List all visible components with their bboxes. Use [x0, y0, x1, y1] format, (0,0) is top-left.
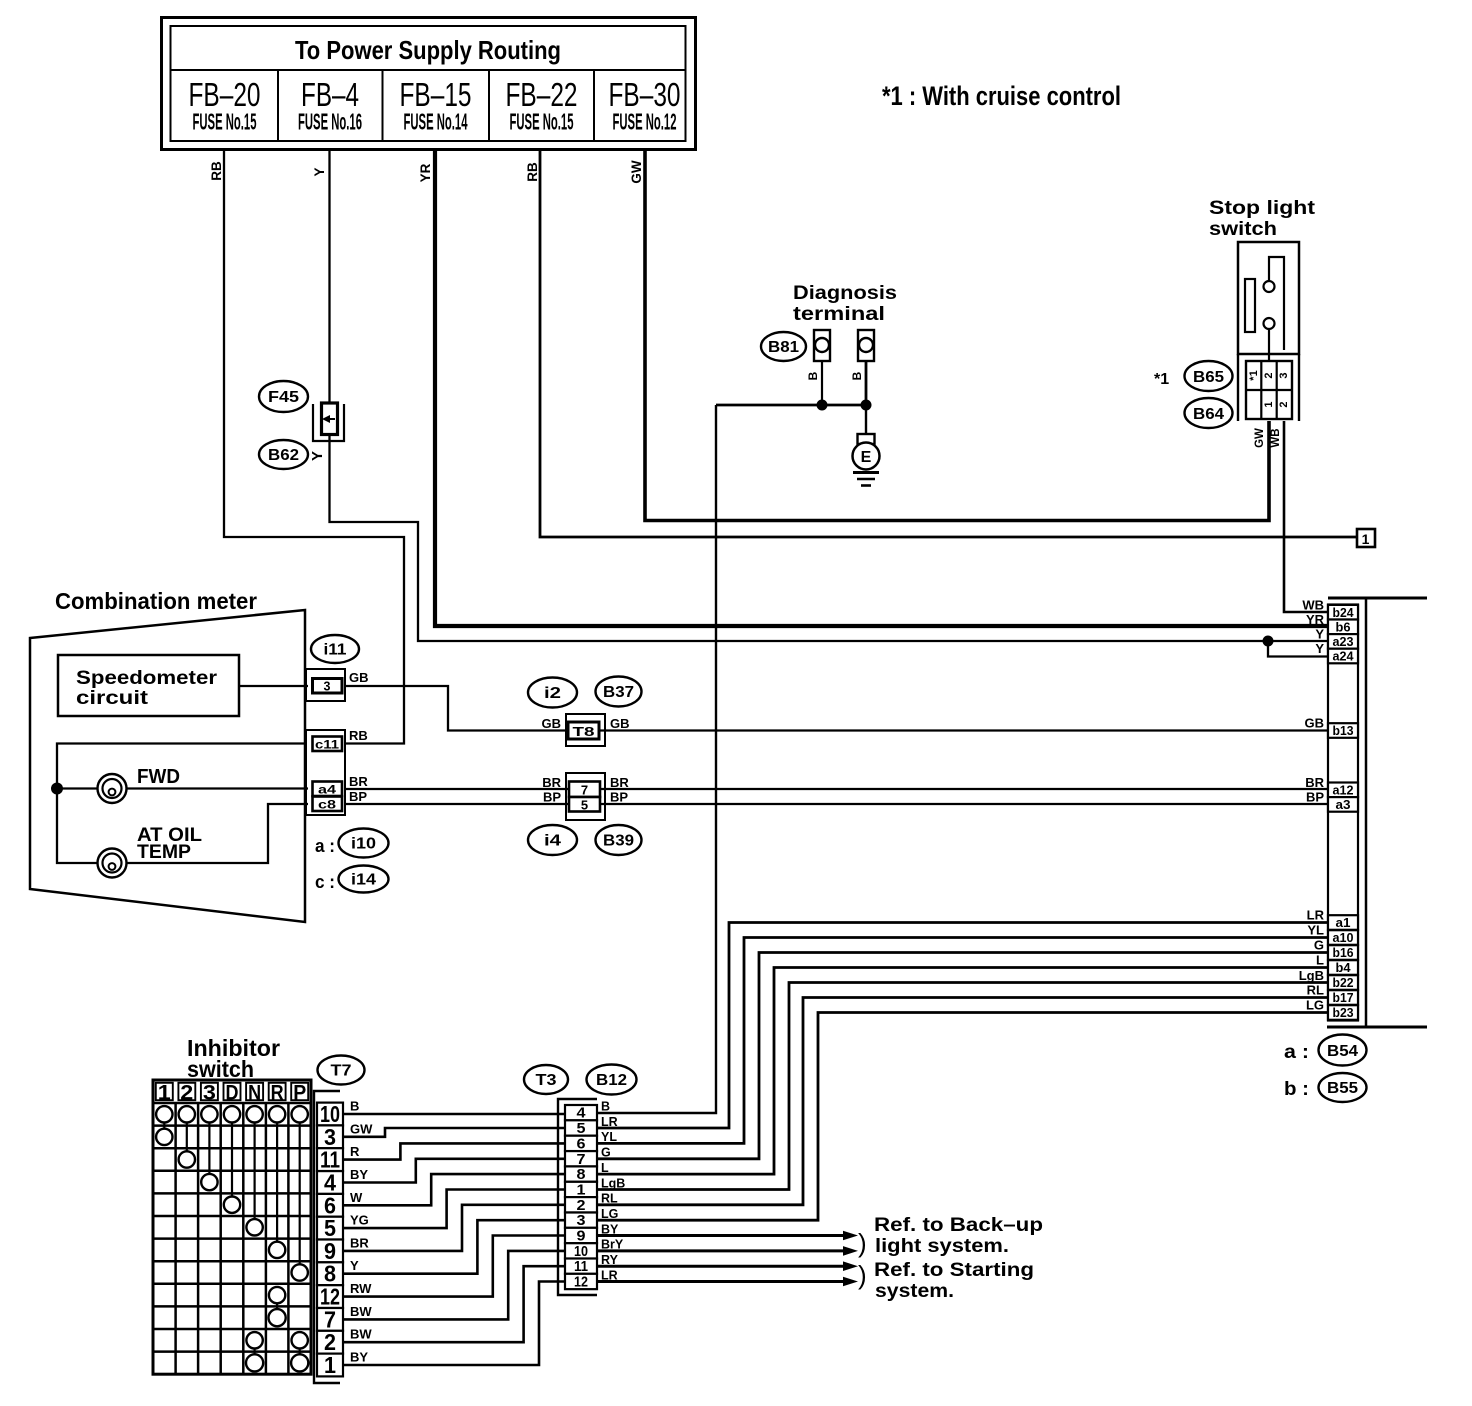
svg-text:2: 2: [180, 1081, 193, 1105]
svg-text:5: 5: [581, 798, 588, 813]
svg-text:B37: B37: [603, 684, 634, 701]
svg-text:BW: BW: [350, 1327, 372, 1342]
oval T7: [318, 1056, 365, 1085]
wire BR from T7 pin 9 to B12: [343, 1205, 565, 1251]
svg-text:BP: BP: [610, 790, 628, 805]
svg-text:b4: b4: [1336, 960, 1352, 975]
svg-text:FB–20: FB–20: [189, 76, 261, 113]
wire Y from FB-4 through F45/B62 to pins a23/a24: [330, 149, 1329, 641]
connector F45/B62 on Y wire: [313, 403, 344, 441]
svg-text:WB: WB: [1270, 428, 1282, 447]
label Inhibitor switch: [187, 1035, 280, 1082]
svg-text:BY: BY: [350, 1167, 368, 1182]
svg-text:RW: RW: [350, 1281, 372, 1296]
pin b23: [1328, 1005, 1358, 1020]
diagnosis terminal contact 2: [858, 330, 874, 361]
T7 pin 8: [317, 1261, 343, 1287]
fuse FB-15 FUSE No.14: [400, 76, 472, 135]
oval T3: [524, 1065, 568, 1094]
T7 pin 10: [317, 1101, 343, 1127]
label Stop light switch: [1209, 198, 1316, 240]
AT OIL TEMP indicator lamp: [98, 849, 127, 878]
meter internal wiring to lamps: [57, 744, 308, 864]
wire B from diagnosis node to connector B12 pin 4: [598, 405, 716, 1113]
svg-text:FB–15: FB–15: [400, 76, 472, 113]
contact circles N rows 11-12: [246, 1332, 263, 1371]
contact circles R rows 9-10: [269, 1287, 286, 1326]
wire WB from stop light pin 2 to pin b24: [1284, 421, 1328, 612]
svg-text:E: E: [861, 449, 872, 466]
wire diagnosis contact 2 to node: [865, 361, 868, 405]
wire YG from T7 pin 5 to B12: [343, 1190, 565, 1229]
pin a3: [1328, 797, 1358, 812]
svg-text:BR: BR: [350, 1235, 369, 1250]
svg-text:RL: RL: [1307, 983, 1324, 998]
pin b16: [1328, 945, 1358, 960]
svg-text:To Power Supply Routing: To Power Supply Routing: [295, 35, 561, 65]
T7 pin 7: [317, 1306, 343, 1332]
B12 pin 8: [565, 1166, 597, 1183]
wire RY from B12 pin 11 arrow: [597, 1261, 858, 1271]
svg-text:a :: a :: [315, 836, 335, 856]
svg-text:R: R: [271, 1081, 284, 1105]
svg-text:LgB: LgB: [1299, 968, 1324, 983]
contact circle column 1: [156, 1129, 172, 1145]
svg-text:T3: T3: [536, 1072, 557, 1089]
oval B12: [587, 1065, 637, 1095]
svg-text:FB–30: FB–30: [609, 76, 681, 113]
svg-text:circuit: circuit: [76, 688, 149, 709]
pin a24: [1328, 649, 1358, 664]
contact line column P: [299, 1123, 301, 1265]
wire B from T7 pin 10 to B12: [343, 1113, 565, 1116]
fuse FB-20 FUSE No.15: [189, 76, 261, 135]
svg-text:Y: Y: [312, 167, 327, 176]
svg-text:Y: Y: [1315, 641, 1324, 656]
svg-text:*1: *1: [1248, 370, 1260, 380]
contact line column 2: [186, 1123, 188, 1152]
B12 pin 7: [565, 1151, 597, 1168]
stop light switch body: [1238, 242, 1299, 361]
pin b24: [1328, 605, 1358, 620]
svg-text:2: 2: [1263, 372, 1275, 378]
T7 pin 11: [317, 1147, 343, 1173]
wire GB from pin 3 to pin b13: [344, 686, 1328, 731]
pin b17: [1328, 990, 1358, 1005]
svg-text:i2: i2: [544, 685, 561, 702]
wire speedometer to pin 3: [239, 685, 308, 687]
svg-text:b22: b22: [1333, 975, 1354, 990]
svg-text:YR: YR: [1306, 612, 1325, 627]
svg-text:b6: b6: [1336, 620, 1351, 635]
svg-text:2: 2: [577, 1198, 586, 1214]
svg-text:8: 8: [577, 1167, 586, 1183]
wire BY from T7 pin 1 to B12: [343, 1282, 565, 1366]
pin a23: [1328, 634, 1358, 649]
contact circles P rows 11-12: [291, 1332, 308, 1371]
B12 pin 2: [565, 1197, 597, 1214]
T7 pin 4: [317, 1170, 343, 1196]
wire YL from B12 pin 6 to strip: [597, 938, 1328, 1144]
svg-text:1: 1: [1263, 401, 1275, 407]
svg-text:FB–22: FB–22: [506, 76, 578, 113]
label Ref to Back-up light system: [874, 1215, 1043, 1257]
svg-text:YR: YR: [418, 163, 433, 182]
T7 pin 9: [317, 1238, 343, 1264]
pin b13: [1328, 723, 1358, 738]
svg-text:FUSE No.12: FUSE No.12: [613, 109, 677, 135]
connector T7 bracket: [314, 1091, 340, 1383]
oval B37: [596, 677, 642, 707]
svg-text:B62: B62: [268, 447, 299, 464]
svg-text:RB: RB: [525, 162, 540, 182]
svg-text:GW: GW: [629, 160, 644, 184]
svg-text:*1: *1: [1154, 371, 1169, 388]
inhibitor switch grid: [153, 1080, 311, 1374]
svg-text:B54: B54: [1327, 1043, 1358, 1060]
grid header labels 1 2 3 D N R P: [158, 1081, 306, 1105]
svg-text:N: N: [248, 1081, 261, 1105]
B12 pin 6: [565, 1136, 597, 1153]
svg-text:3: 3: [1278, 372, 1290, 378]
svg-text:BP: BP: [1306, 790, 1324, 805]
wire BP from c8 to a3: [346, 803, 1328, 805]
svg-text:): ): [858, 1228, 867, 1258]
ground E: [853, 405, 880, 486]
junction dot Y branch: [1263, 636, 1274, 647]
svg-text:D: D: [226, 1081, 239, 1105]
svg-text:3: 3: [324, 680, 331, 694]
svg-text:RB: RB: [209, 161, 224, 181]
pin a12: [1328, 783, 1358, 798]
svg-text:B39: B39: [603, 833, 634, 850]
svg-text:B55: B55: [1327, 1080, 1358, 1097]
wire LgB from B12 pin 1 to strip: [597, 983, 1328, 1190]
wire YR from FB-15 to pin b6: [435, 149, 1328, 626]
svg-text:YG: YG: [350, 1213, 369, 1228]
svg-text:FB–4: FB–4: [301, 76, 359, 113]
wire G from B12 pin 7 to strip: [597, 953, 1328, 1159]
oval B64: [1185, 398, 1233, 428]
wire LR from B12 pin 5 to strip: [597, 923, 1328, 1129]
terminal 1 box: [1357, 529, 1375, 547]
diagnosis terminal contact 1: [814, 330, 830, 361]
svg-text:BR: BR: [1305, 775, 1324, 790]
combination meter outline: [30, 610, 305, 922]
svg-text:B65: B65: [1193, 369, 1224, 386]
label b B55: [1284, 1073, 1367, 1102]
power supply routing box frame: [162, 18, 696, 150]
svg-text:G: G: [1314, 938, 1324, 953]
oval i4: [528, 825, 577, 855]
junction dot meter: [51, 783, 63, 795]
svg-text:3: 3: [203, 1081, 216, 1105]
label AT OIL TEMP: [137, 825, 202, 863]
svg-text:Y: Y: [309, 451, 326, 461]
svg-text:F45: F45: [268, 389, 299, 406]
B12 pin 11: [565, 1259, 597, 1276]
wire GW from T7 pin 3 to B12: [343, 1128, 565, 1137]
svg-text:B: B: [850, 371, 864, 380]
svg-text:GB: GB: [1305, 716, 1325, 731]
T7 pin 5: [317, 1215, 343, 1241]
svg-text:T8: T8: [573, 725, 595, 739]
wire W from T7 pin 6 to B12: [343, 1174, 565, 1205]
pin a10: [1328, 930, 1358, 945]
B12 pin 5: [565, 1120, 597, 1137]
contact circle column 3: [201, 1174, 217, 1190]
svg-text:T7: T7: [331, 1063, 352, 1080]
svg-text:c8: c8: [318, 798, 336, 812]
svg-text:b16: b16: [1333, 945, 1354, 960]
svg-text:a10: a10: [1333, 930, 1354, 945]
wire BY from B12 pin 9 arrow: [597, 1231, 858, 1241]
wire BR from a4 to a12: [346, 788, 1328, 790]
svg-text:Combination meter: Combination meter: [55, 588, 257, 614]
contact line column 3: [208, 1123, 210, 1174]
svg-text:5: 5: [577, 1121, 586, 1137]
svg-text:12: 12: [574, 1275, 588, 1291]
label a B54: [1284, 1035, 1367, 1066]
label a i10: [315, 829, 389, 858]
svg-text:6: 6: [577, 1136, 586, 1152]
oval i2: [528, 678, 577, 708]
oval i11: [311, 635, 359, 663]
svg-text:light system.: light system.: [875, 1236, 1009, 1257]
svg-text:a :: a :: [1284, 1042, 1309, 1063]
pin a1: [1328, 915, 1358, 930]
wire diagnosis node horizontal: [716, 404, 866, 407]
svg-text:b13: b13: [1333, 723, 1354, 738]
wire BW from T7 pin 7 to B12: [343, 1251, 565, 1320]
svg-text:RB: RB: [349, 728, 368, 743]
svg-text:7: 7: [581, 783, 588, 798]
contact circle column P: [292, 1264, 308, 1280]
svg-text:a23: a23: [1333, 634, 1354, 649]
B12 pin 4: [565, 1105, 597, 1122]
svg-text:b :: b :: [1284, 1079, 1309, 1100]
T7 pin 2: [317, 1329, 343, 1355]
svg-text:1: 1: [324, 1352, 336, 1378]
svg-text:B: B: [601, 1100, 610, 1114]
connector T8: [566, 714, 605, 746]
svg-text:b23: b23: [1333, 1005, 1354, 1020]
svg-text:b24: b24: [1333, 605, 1355, 620]
pin b22: [1328, 975, 1358, 990]
svg-text:Y: Y: [1315, 627, 1324, 642]
svg-text:system.: system.: [875, 1281, 954, 1302]
svg-text:Stop light: Stop light: [1209, 198, 1316, 219]
svg-text:i11: i11: [324, 642, 347, 659]
svg-text:B81: B81: [768, 339, 799, 356]
svg-text:a24: a24: [1333, 649, 1355, 664]
svg-text:GW: GW: [350, 1121, 373, 1136]
svg-text:*1 : With cruise control: *1 : With cruise control: [882, 81, 1121, 111]
svg-text:LR: LR: [1307, 908, 1325, 923]
oval B39: [596, 825, 642, 855]
wire RW from T7 pin 12 to B12: [343, 1236, 565, 1297]
svg-text:c :: c :: [315, 872, 335, 892]
wire BY from T7 pin 4 to B12: [343, 1159, 565, 1183]
svg-text:b17: b17: [1333, 990, 1354, 1005]
fuse FB-4 FUSE No.16: [298, 76, 362, 135]
T7 pin 1: [317, 1352, 343, 1378]
svg-text:B64: B64: [1193, 406, 1224, 423]
svg-text:c11: c11: [315, 738, 339, 752]
wire RB from FB-20 to combination meter pin c11: [224, 149, 404, 744]
svg-text:BY: BY: [350, 1350, 368, 1365]
contact circle column 2: [179, 1151, 195, 1167]
svg-text:FUSE No.16: FUSE No.16: [298, 109, 362, 135]
fuse FB-30 FUSE No.12: [609, 76, 681, 135]
svg-text:Diagnosis: Diagnosis: [793, 283, 897, 304]
wire LR from B12 pin 12 arrow: [597, 1277, 858, 1287]
svg-text:GW: GW: [1254, 428, 1266, 448]
oval F45: [259, 381, 308, 412]
svg-text:P: P: [293, 1081, 306, 1105]
contact circle column N: [246, 1219, 262, 1235]
svg-text:Speedometer: Speedometer: [76, 668, 218, 689]
svg-text:2: 2: [1278, 401, 1290, 407]
svg-text:FUSE No.15: FUSE No.15: [510, 109, 574, 135]
speedometer circuit box: [58, 655, 239, 716]
svg-text:FWD: FWD: [137, 766, 180, 788]
contact line column R: [276, 1123, 278, 1242]
wire BrY from B12 pin 10 arrow: [597, 1246, 858, 1256]
oval B81: [761, 332, 806, 361]
wire BW from T7 pin 2 to B12: [343, 1266, 565, 1342]
contact line column N: [254, 1123, 256, 1220]
pin b4: [1328, 960, 1358, 975]
contact line column 1: [163, 1123, 165, 1129]
wire diagnosis contact 1 to node: [821, 361, 823, 405]
B12 pin 3: [565, 1213, 597, 1230]
T7 pin 3: [317, 1124, 343, 1150]
label Diagnosis terminal: [793, 283, 897, 325]
svg-text:GB: GB: [610, 716, 630, 731]
svg-text:R: R: [350, 1144, 360, 1159]
connector B12 bracket: [558, 1099, 597, 1295]
B12 pin 10: [565, 1243, 597, 1260]
svg-text:switch: switch: [187, 1056, 254, 1082]
svg-text:TEMP: TEMP: [137, 842, 191, 863]
svg-text:FUSE No.15: FUSE No.15: [193, 109, 257, 135]
fuse FB-22 FUSE No.15: [506, 76, 578, 135]
junction dot diagnosis 1: [817, 400, 828, 411]
svg-text:a3: a3: [1336, 797, 1351, 812]
contact circle column D: [224, 1197, 240, 1213]
label c i14: [315, 866, 389, 893]
svg-text:1: 1: [158, 1081, 171, 1105]
wire Y from T7 pin 8 to B12: [343, 1220, 565, 1274]
svg-text:a1: a1: [1336, 915, 1351, 930]
svg-text:GB: GB: [542, 716, 562, 731]
B12 pin 9: [565, 1228, 597, 1245]
svg-text:a4: a4: [318, 783, 336, 797]
connector i4/B39 pins 7 and 5: [566, 773, 605, 820]
svg-text:Ref. to Starting: Ref. to Starting: [874, 1260, 1034, 1281]
contact circle column R: [269, 1242, 285, 1258]
T7 pin 6: [317, 1192, 343, 1218]
FWD indicator lamp: [98, 774, 127, 803]
svg-text:): ): [858, 1260, 867, 1290]
svg-text:BR: BR: [542, 775, 561, 790]
wire Y branch to pin a24: [1268, 641, 1328, 657]
svg-text:i10: i10: [351, 836, 376, 853]
svg-text:WB: WB: [1302, 598, 1324, 613]
svg-text:terminal: terminal: [793, 304, 885, 325]
T7 pin 12: [317, 1284, 343, 1310]
svg-text:BR: BR: [349, 774, 368, 789]
contact circles row all positions: [156, 1106, 308, 1122]
label Ref to Starting system: [874, 1260, 1034, 1302]
wire RB from FB-22 to terminal 1: [540, 149, 1357, 537]
svg-text:a12: a12: [1333, 783, 1354, 798]
svg-text:BR: BR: [610, 775, 629, 790]
oval B62: [259, 440, 308, 469]
svg-text:9: 9: [577, 1229, 586, 1245]
svg-text:BP: BP: [543, 790, 561, 805]
pin b6: [1328, 620, 1358, 635]
svg-text:B12: B12: [596, 1072, 627, 1089]
wire LG from B12 pin 3 to strip: [597, 1013, 1328, 1221]
svg-text:BP: BP: [349, 789, 367, 804]
svg-text:Ref. to Back–up: Ref. to Back–up: [874, 1215, 1043, 1236]
contact line column D: [231, 1123, 233, 1197]
svg-text:FUSE No.14: FUSE No.14: [404, 109, 468, 135]
svg-text:i4: i4: [544, 833, 561, 850]
wire L from B12 pin 8 to strip: [597, 968, 1328, 1175]
junction dot diagnosis 2: [861, 400, 872, 411]
svg-text:LG: LG: [1306, 998, 1324, 1013]
wire RL from B12 pin 2 to strip: [597, 998, 1328, 1205]
svg-text:BW: BW: [350, 1304, 372, 1319]
connector pins c11 a4 c8: [306, 730, 345, 815]
svg-text:GB: GB: [349, 670, 369, 685]
B12 pin 1: [565, 1182, 597, 1199]
B12 pin 12: [565, 1274, 597, 1291]
stop light switch connector B65/B64: [1238, 354, 1299, 421]
svg-text:B: B: [350, 1099, 359, 1114]
svg-text:1: 1: [1362, 531, 1370, 547]
TCU connector strip outline: [1327, 598, 1427, 1027]
svg-text:Y: Y: [350, 1258, 359, 1273]
svg-text:switch: switch: [1209, 219, 1277, 240]
svg-text:i14: i14: [351, 872, 376, 889]
svg-text:W: W: [350, 1190, 363, 1205]
wire R from T7 pin 11 to B12: [343, 1143, 565, 1159]
wire GW from FB-30 to stop light switch pin 1: [645, 149, 1269, 521]
svg-text:YL: YL: [1307, 923, 1324, 938]
svg-text:B: B: [806, 371, 820, 380]
connector pin 3: [306, 669, 345, 701]
oval B65: [1185, 361, 1233, 391]
svg-text:L: L: [1316, 953, 1324, 968]
